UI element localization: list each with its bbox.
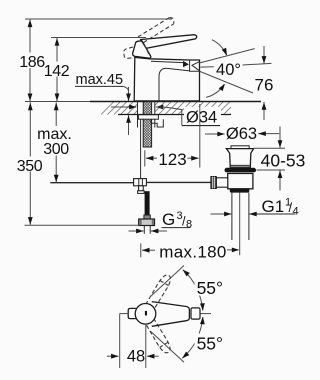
dimension 40-53 (waste adjustment) xyxy=(254,127,306,191)
top view: handle centerline stub xyxy=(201,313,212,315)
55 degree arc top xyxy=(181,268,225,311)
svg-text:4: 4 xyxy=(293,206,299,218)
svg-text:max.180: max.180 xyxy=(159,242,226,261)
top view: faucet body circle xyxy=(135,304,156,325)
waste valve: flange and body xyxy=(226,149,253,168)
top view: spout stub xyxy=(128,308,136,318)
lever hub phantom (raised, dashed) xyxy=(124,47,134,58)
extension line second (lever rest height) xyxy=(51,37,146,39)
threaded shank through deck xyxy=(143,102,151,148)
55 degree arc bottom xyxy=(180,317,224,361)
svg-text:76: 76 xyxy=(255,76,274,95)
svg-text:48: 48 xyxy=(127,348,145,366)
waste valve: knurled nut xyxy=(211,177,216,189)
top view: phantom handle up (dashed) xyxy=(146,273,174,310)
lever blade solid xyxy=(141,35,197,49)
dimension 142 xyxy=(44,38,70,102)
label Ø34 (deck hole) xyxy=(111,105,221,127)
svg-text:G: G xyxy=(162,210,175,229)
supply nut xyxy=(139,219,155,226)
waste valve: rod port tube xyxy=(216,178,228,187)
svg-text:186: 186 xyxy=(19,54,45,71)
top view: phantom centerline extensions xyxy=(151,266,185,363)
waste valve: lower body xyxy=(228,174,253,189)
faucet body (side view) xyxy=(134,57,199,101)
deck hatch right xyxy=(155,102,231,115)
40 degree spout cone lines xyxy=(200,49,255,93)
svg-text:Ø63: Ø63 xyxy=(226,125,257,143)
label Ø63 (waste flange) xyxy=(205,125,279,143)
top view: solid handle xyxy=(152,302,200,327)
waste valve: plug xyxy=(231,146,249,149)
mounting claw xyxy=(151,119,163,127)
pop-up pull rod xyxy=(140,119,142,178)
dimension 76 (spout height) xyxy=(243,46,274,120)
dimension 48 (outlet to center, top view) xyxy=(107,314,159,369)
horizontal actuating rod right xyxy=(147,181,212,183)
supply pipe collar xyxy=(144,215,150,219)
dimension max.180 (rod to waste distance) xyxy=(141,242,240,261)
svg-text:Ø34: Ø34 xyxy=(186,108,217,126)
top view: phantom handle down (dashed) xyxy=(145,318,173,355)
waste valve: o-ring seal xyxy=(225,168,257,173)
deck hole edge sleeves xyxy=(138,102,155,128)
40 degree arc bottom xyxy=(206,82,227,97)
svg-text:8: 8 xyxy=(186,219,192,231)
supply pipe (black section) xyxy=(145,191,150,215)
svg-text:142: 142 xyxy=(44,63,70,80)
dimension max.300 (rod length below deck) xyxy=(37,102,72,182)
label G3/8 xyxy=(129,210,193,233)
svg-text:40°: 40° xyxy=(216,61,241,79)
svg-text:G1: G1 xyxy=(262,197,285,216)
lever hub solid xyxy=(133,41,151,58)
lever blade phantom (raised, dashed) xyxy=(138,18,174,56)
svg-text:123: 123 xyxy=(158,150,186,169)
extension line top (lever max height) xyxy=(25,18,172,20)
svg-text:55°: 55° xyxy=(197,278,223,298)
supply pipe tip G3/8 xyxy=(144,226,150,234)
rod junction clamp xyxy=(134,179,147,194)
label 40deg xyxy=(216,61,241,79)
svg-text:55°: 55° xyxy=(197,333,223,353)
svg-text:40-53: 40-53 xyxy=(261,151,306,171)
svg-text:max.45: max.45 xyxy=(76,72,124,88)
deck bottom line xyxy=(118,114,231,116)
dimension 186 xyxy=(19,19,45,102)
label G1 1/4 (waste thread) xyxy=(211,197,299,218)
waste valve: collar xyxy=(230,189,250,193)
40 degree arc top xyxy=(212,40,229,57)
horizontal actuating rod left xyxy=(50,182,133,184)
waste valve: tailpipe xyxy=(232,193,249,256)
dimension 350 (supply length below deck) xyxy=(16,102,140,225)
svg-text:350: 350 xyxy=(17,158,43,175)
dimension max.45 (deck thickness) xyxy=(75,72,131,135)
svg-text:300: 300 xyxy=(43,141,69,158)
deck top line xyxy=(25,101,261,103)
dimension 123 (spout projection) xyxy=(145,104,200,169)
mounting washer xyxy=(138,115,158,119)
deck hatch left xyxy=(101,102,137,115)
